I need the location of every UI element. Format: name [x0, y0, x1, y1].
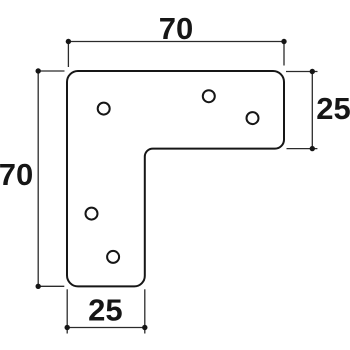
- svg-text:25: 25: [88, 293, 122, 328]
- svg-text:70: 70: [159, 11, 193, 46]
- svg-text:70: 70: [0, 157, 33, 192]
- svg-text:25: 25: [316, 91, 350, 126]
